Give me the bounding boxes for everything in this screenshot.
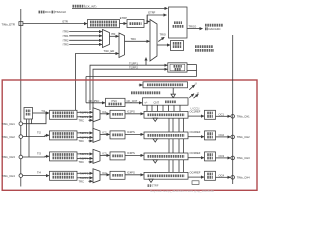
svg-text:TRC: TRC xyxy=(131,37,137,41)
wire IC4PS xyxy=(125,174,144,176)
svg-text:blog.csdn.net/qq_38405680 CSD: blog.csdn.net/qq_38405680 CSDN @qq_38405… xyxy=(150,189,214,193)
svg-text:OC3REF: OC3REF xyxy=(190,151,201,155)
svg-text:TI2: TI2 xyxy=(37,130,41,134)
svg-text:ITR2: ITR2 xyxy=(63,38,69,42)
wire UI event from CNT xyxy=(194,94,199,98)
svg-text:TI2FP2: TI2FP2 xyxy=(129,66,138,70)
wire TI4FP3 xyxy=(77,172,93,174)
node stop-clear-updown label xyxy=(131,91,161,94)
wire CK_CNT xyxy=(125,102,142,104)
node CK_INT internal clock label xyxy=(73,4,97,8)
wire CH3 stub to XOR xyxy=(28,119,30,157)
wire TRC into mux ch2 xyxy=(89,140,93,142)
wire TRGI to slave controller xyxy=(157,44,170,46)
wire OC3 xyxy=(216,157,231,159)
block input filter & edge detector ch4 xyxy=(50,171,78,180)
gate XOR TI1 selection xyxy=(24,108,33,120)
svg-text:OC4: OC4 xyxy=(219,173,225,177)
wire ITR1 xyxy=(69,35,102,37)
pin TIMx_CH1 output xyxy=(231,115,235,119)
wire right pin rail xyxy=(232,35,234,184)
block input filter & edge detector ch3 xyxy=(50,152,78,161)
wire TI1FP1 xyxy=(77,111,93,113)
mux IC2 selector xyxy=(93,128,100,142)
svg-text:+/-: +/- xyxy=(144,100,147,104)
svg-text:TIMx_CH1: TIMx_CH1 xyxy=(2,122,16,126)
svg-text:ITR1: ITR1 xyxy=(63,34,69,38)
wire CK_PSC horizontal xyxy=(86,76,197,78)
pin TIMx_ETR xyxy=(19,22,23,26)
svg-text:TIMx_CH4: TIMx_CH4 xyxy=(2,174,16,178)
node U transfer triangle ch1 xyxy=(153,118,157,121)
wire TI2FP2 xyxy=(77,136,93,138)
block slave mode controller xyxy=(171,41,184,51)
svg-text:TIMxCLK: TIMxCLK xyxy=(55,10,66,14)
wire TRC into mux ch4 xyxy=(89,180,93,182)
block output control ch2 xyxy=(205,131,216,140)
node ETRF into channel4 xyxy=(148,184,159,188)
wire compare lines between register 2 and 3 xyxy=(169,139,184,153)
svg-text:TIMx_CH3: TIMx_CH3 xyxy=(2,155,16,159)
svg-text:TIMx_CH1: TIMx_CH1 xyxy=(237,114,250,118)
wire IC2PS xyxy=(125,133,144,135)
mux IC1 selector xyxy=(93,108,100,122)
wire OC1REF xyxy=(188,115,204,117)
wire TRC into mux ch3 xyxy=(89,161,93,163)
wire TRC xyxy=(125,40,150,42)
svg-text:ETRF: ETRF xyxy=(152,184,159,188)
block capture/compare register 2 xyxy=(144,132,188,139)
svg-text:ETR: ETR xyxy=(63,19,68,23)
block capture/compare register 3 xyxy=(144,153,188,160)
wire TI2FP1 xyxy=(77,132,93,134)
block prescaler ch2 xyxy=(110,131,125,139)
block PSC prescaler xyxy=(106,98,126,106)
wire ETRP xyxy=(120,23,127,25)
wire TIMx_CH2 to filter xyxy=(23,135,49,136)
wire IC3PS xyxy=(125,154,144,156)
wire compare lines CNT to capture register 1 xyxy=(147,105,180,111)
pin TIMx_CH3 output xyxy=(231,156,235,160)
wire into auto-reload register xyxy=(139,84,143,86)
wire CK_PSC into PSC xyxy=(86,102,105,104)
wire ETRF drop to TRGI mux xyxy=(147,15,149,22)
wire TIMx_CH1 to filter xyxy=(23,113,49,124)
node U transfer triangle ch4 xyxy=(149,179,153,182)
block polarity/edge-detector/prescaler xyxy=(88,20,120,28)
svg-text:TRC: TRC xyxy=(78,160,84,164)
block capture/compare register 4 xyxy=(144,172,188,179)
wire ITR0 xyxy=(69,31,102,33)
wire XOR output TI1 xyxy=(33,112,49,114)
wire ETR xyxy=(23,23,87,25)
block trigger controller xyxy=(169,7,188,38)
svg-text:IC2PS: IC2PS xyxy=(127,130,135,134)
svg-text:CNT: CNT xyxy=(154,100,160,104)
wire TRC into mux ch1 xyxy=(89,119,93,121)
wire encoder clock out bottom xyxy=(187,70,197,72)
mux TRGI selector xyxy=(150,20,157,62)
wire U event from ARR xyxy=(189,85,195,90)
wire ITR xyxy=(110,35,119,37)
wire ETRF to trigger controller xyxy=(144,15,167,24)
wire IC1PS xyxy=(125,113,144,115)
block output control ch3 xyxy=(205,152,216,161)
wire CH2 stub to XOR xyxy=(26,119,28,136)
svg-text:DAC/ADC: DAC/ADC xyxy=(209,27,221,31)
pin TIMx_CH2 input xyxy=(19,135,23,139)
svg-text:TI3: TI3 xyxy=(37,152,41,156)
wire IC3 xyxy=(100,154,110,156)
svg-text:RCC: RCC xyxy=(45,10,51,14)
wire CH1 stub to XOR xyxy=(31,119,33,124)
wire IC2 xyxy=(100,133,110,135)
svg-text:IC4PS: IC4PS xyxy=(127,171,135,175)
svg-text:(CK_INT): (CK_INT) xyxy=(85,4,96,8)
svg-text:IC3PS: IC3PS xyxy=(127,151,135,155)
pin TIMx_CH4 output xyxy=(231,176,235,180)
wire TI1FP1 feed xyxy=(90,65,167,110)
wire clock path vertical xyxy=(196,65,198,77)
pin TIMx_CH1 input xyxy=(19,122,23,126)
block input filter xyxy=(127,20,144,28)
wire OC2REF xyxy=(188,136,204,138)
wire IC1 xyxy=(100,113,110,115)
svg-text:OC2: OC2 xyxy=(219,133,225,137)
svg-text:IC2: IC2 xyxy=(102,130,107,134)
wire TIMx_CH3 to filter xyxy=(23,155,49,158)
svg-text:CK_CNT: CK_CNT xyxy=(127,99,138,103)
wire OC4 xyxy=(216,176,231,178)
node U transfer triangle ch2 xyxy=(153,139,157,142)
wire TI2FP2 feed xyxy=(93,69,167,131)
svg-text:TIMx_CH2: TIMx_CH2 xyxy=(237,135,250,139)
node TIMxCLK from RCC label xyxy=(39,10,67,14)
svg-text:OC3: OC3 xyxy=(219,154,225,158)
wire OC3REF xyxy=(188,157,204,159)
red highlight box xyxy=(2,80,257,190)
wire TI1FP1 stub to TRGI mux xyxy=(145,58,147,66)
svg-text:IC1: IC1 xyxy=(102,110,107,114)
svg-text:OC1REF: OC1REF xyxy=(190,109,201,113)
wire TRGI diagonal arrow xyxy=(158,37,164,41)
block CNT counter xyxy=(143,98,189,105)
block input filter & edge detector ch1 xyxy=(50,110,78,119)
wire encoder clock out top xyxy=(187,64,197,66)
block prescaler ch3 xyxy=(110,152,125,160)
node to-other-timers label xyxy=(205,25,223,31)
svg-text:CK_PSC: CK_PSC xyxy=(89,99,100,103)
block capture/compare register 1 xyxy=(144,111,188,118)
pin TIMx_CH4 input xyxy=(19,174,23,178)
svg-text:TIMx_CH4: TIMx_CH4 xyxy=(237,175,250,179)
wire ARR to CNT preload xyxy=(172,88,174,94)
svg-text:TI1F_ED: TI1F_ED xyxy=(104,49,115,53)
wire ITR3 xyxy=(69,43,102,45)
svg-text:U: U xyxy=(195,82,197,86)
wire CK_INT clock line xyxy=(72,7,168,9)
svg-text:TIMx_ETR: TIMx_ETR xyxy=(2,22,15,26)
svg-text:ETRP: ETRP xyxy=(120,16,127,20)
svg-text:TI4: TI4 xyxy=(37,170,41,174)
mux IC4 selector xyxy=(93,169,100,183)
wire compare lines between register 3 and 4 xyxy=(169,160,184,173)
wire IC4 xyxy=(100,174,110,176)
block input filter & edge detector ch2 xyxy=(50,131,78,140)
svg-text:OC2REF: OC2REF xyxy=(190,130,201,134)
svg-text:TI1: TI1 xyxy=(41,109,45,113)
block encoder interface xyxy=(168,63,187,72)
svg-text:IC3: IC3 xyxy=(102,151,107,155)
node small box below register 4 xyxy=(192,181,199,185)
wire U event from CNT xyxy=(189,94,194,98)
svg-text:U: U xyxy=(197,91,199,95)
wire ITR2 xyxy=(69,39,102,41)
svg-text:TIMx_CH3: TIMx_CH3 xyxy=(237,156,250,160)
block auto-reload register ARR xyxy=(143,82,188,88)
svg-text:PSC: PSC xyxy=(112,99,118,103)
wire TI4FP4 xyxy=(77,177,93,179)
pin TIMx_CH3 input xyxy=(19,155,23,159)
svg-text:TRC: TRC xyxy=(78,179,84,183)
mux IC3 selector xyxy=(93,149,100,163)
block output control ch4 xyxy=(205,171,216,180)
wire compare lines between register 1 and 2 xyxy=(169,118,184,132)
wire TI1FP2 xyxy=(77,116,93,118)
mux TRC selector xyxy=(119,33,125,58)
pin TIMx_CH2 output xyxy=(231,135,235,139)
wire TI3FP4 xyxy=(77,157,93,159)
wire OC4REF xyxy=(188,176,204,178)
svg-text:ITR3: ITR3 xyxy=(63,43,69,47)
svg-text:IC4: IC4 xyxy=(102,171,107,175)
svg-text:TIMx_CH2: TIMx_CH2 xyxy=(2,135,16,139)
block prescaler ch1 xyxy=(110,110,125,118)
block prescaler ch4 xyxy=(110,171,125,179)
node U transfer triangle ch3 xyxy=(153,160,157,163)
wire CK_PSC drop xyxy=(85,77,87,103)
block output control ch1 xyxy=(205,110,216,119)
svg-text:OC1: OC1 xyxy=(219,112,225,116)
svg-text:TRC: TRC xyxy=(78,139,84,143)
svg-text:TRC: TRC xyxy=(78,118,84,122)
wire left pin rail xyxy=(20,9,22,187)
node U transfer triangle xyxy=(171,94,175,98)
wire OC2 xyxy=(216,136,231,138)
svg-text:ETRF: ETRF xyxy=(148,11,155,15)
svg-text:TI1FP1: TI1FP1 xyxy=(129,62,138,66)
wire OC1 xyxy=(216,115,231,117)
mux ITR selector xyxy=(103,30,110,48)
svg-text:OC4REF: OC4REF xyxy=(190,170,201,174)
svg-text:IC1PS: IC1PS xyxy=(127,110,135,114)
wire TI1F_ED xyxy=(76,54,119,111)
svg-text:ITR0: ITR0 xyxy=(63,30,69,34)
wire TI3FP3 xyxy=(77,153,93,155)
wire TIMx_CH4 to filter xyxy=(23,175,49,177)
node reset-enable-updown label xyxy=(195,47,214,51)
svg-text:ITR: ITR xyxy=(111,32,115,36)
svg-text:TRGI: TRGI xyxy=(160,33,167,37)
wire TRGO xyxy=(187,28,203,30)
svg-text:TRGO: TRGO xyxy=(189,24,197,28)
